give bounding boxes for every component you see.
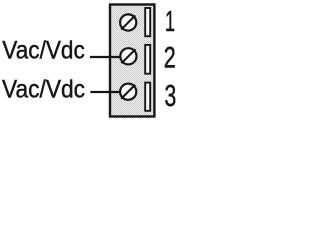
svg-text:Vac/Vdc: Vac/Vdc	[2, 76, 85, 104]
svg-text:2: 2	[164, 42, 176, 74]
terminal block TB1 body	[110, 5, 154, 117]
screw terminal 2	[120, 48, 136, 64]
svg-text:Vac/Vdc: Vac/Vdc	[2, 37, 85, 65]
screw terminal 1	[120, 14, 136, 30]
screw terminal 3	[120, 84, 136, 100]
contact slot pin 1	[145, 8, 150, 36]
contact slot pin 3	[145, 83, 150, 111]
wire to terminal 3	[90, 91, 121, 93]
contact slot pin 2	[145, 45, 150, 74]
svg-text:1: 1	[165, 5, 175, 37]
wire to terminal 2	[90, 56, 121, 58]
svg-text:3: 3	[165, 79, 177, 113]
